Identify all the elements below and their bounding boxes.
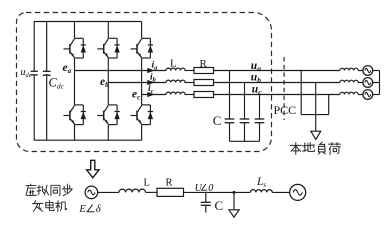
svg-text:ea: ea <box>63 62 72 75</box>
svg-text:ic: ic <box>148 84 154 95</box>
svg-text:C: C <box>213 113 222 128</box>
svg-text:ib: ib <box>150 72 157 83</box>
svg-text:uc: uc <box>252 84 262 97</box>
svg-text:L: L <box>170 58 177 70</box>
svg-text:R: R <box>166 178 173 189</box>
svg-text:ia: ia <box>152 60 159 71</box>
svg-text:PCC: PCC <box>274 103 297 117</box>
svg-text:L: L <box>144 178 150 189</box>
svg-text:0: 0 <box>208 183 213 194</box>
svg-text:R: R <box>200 58 208 70</box>
svg-text:E: E <box>78 204 86 215</box>
svg-text:δ: δ <box>96 204 102 215</box>
svg-text:C: C <box>215 198 224 213</box>
svg-text:Cdc: Cdc <box>49 76 65 91</box>
svg-text:U: U <box>195 183 203 194</box>
svg-text:udc: udc <box>21 67 32 79</box>
svg-text:ec: ec <box>132 89 140 102</box>
svg-text:Ls: Ls <box>256 176 266 189</box>
